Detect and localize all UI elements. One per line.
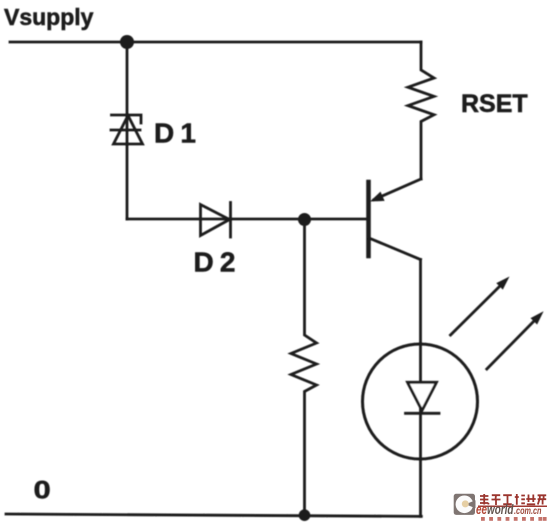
transistor Q1 collector <box>369 238 421 260</box>
transistor Q1 emitter arrowhead <box>370 192 385 202</box>
svg-text:0: 0 <box>34 476 51 504</box>
transistor Q1 base bar <box>366 182 371 256</box>
wire collector to bottom rail <box>419 260 422 517</box>
watermark red underline <box>478 505 547 507</box>
node A junction dot <box>120 35 134 49</box>
diode D2 cathode bar <box>229 203 232 238</box>
wire base rail <box>127 218 369 221</box>
LED emission arrow 1 head <box>496 277 509 290</box>
watermark logo center dot <box>462 500 469 507</box>
LED D3 circle <box>363 344 478 459</box>
diode D1 triangle <box>114 116 143 145</box>
node C junction dot <box>299 509 311 521</box>
LED D3 cathode bar <box>406 412 440 415</box>
LED D3 triangle <box>408 382 437 410</box>
watermark slogan dashes <box>481 517 547 521</box>
diode D2 triangle <box>201 205 230 236</box>
wire D1 branch vertical <box>126 42 129 219</box>
watermark logo C <box>456 496 474 514</box>
wire bottom rail <box>6 514 421 516</box>
resistor RSET with wires <box>408 42 434 179</box>
watermark CJK title mock <box>480 494 546 505</box>
diode D1 zener bar <box>112 115 142 123</box>
svg-text:D 1: D 1 <box>154 118 195 149</box>
transistor Q1 emitter <box>374 179 421 200</box>
svg-text:Vsupply: Vsupply <box>4 4 94 30</box>
watermark logo box <box>454 494 476 515</box>
LED emission arrow 2 <box>487 319 537 370</box>
svg-text:D 2: D 2 <box>194 247 235 278</box>
LED emission arrow 2 head <box>531 311 544 324</box>
LED emission arrow 1 <box>451 284 503 335</box>
wire top rail <box>10 41 421 44</box>
diode D1 mid bar <box>111 129 140 132</box>
svg-text:RSET: RSET <box>461 90 528 118</box>
node B junction dot <box>298 213 311 226</box>
wire and resistor R branch <box>291 220 317 516</box>
